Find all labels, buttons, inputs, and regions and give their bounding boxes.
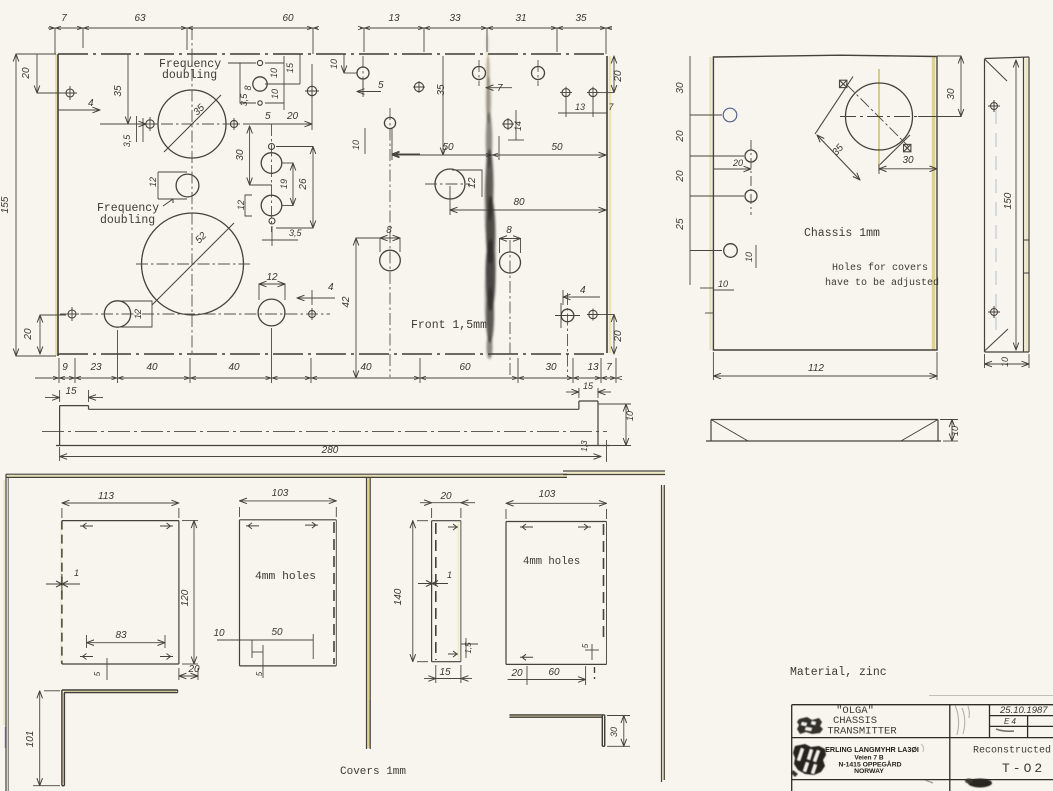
svg-text:Veien 7 B: Veien 7 B	[854, 755, 884, 762]
svg-text:50: 50	[442, 142, 454, 153]
svg-text:50: 50	[271, 627, 283, 638]
svg-text:Covers 1mm: Covers 1mm	[340, 766, 406, 778]
svg-text:60: 60	[548, 667, 560, 678]
svg-text:10: 10	[213, 628, 225, 639]
svg-text:33: 33	[449, 13, 461, 24]
svg-text:19: 19	[279, 179, 289, 189]
svg-text:13: 13	[575, 102, 585, 112]
svg-text:30: 30	[902, 155, 914, 166]
svg-text:8: 8	[506, 225, 512, 236]
svg-text:10: 10	[950, 426, 960, 436]
svg-text:20: 20	[732, 158, 743, 168]
svg-text:ERLING LANGMYHR LA3ØI: ERLING LANGMYHR LA3ØI	[825, 745, 919, 754]
svg-text:113: 113	[98, 491, 114, 502]
svg-text:26: 26	[298, 178, 309, 191]
svg-text:12: 12	[467, 177, 478, 189]
svg-text:40: 40	[228, 362, 240, 373]
svg-text:1,5: 1,5	[464, 642, 473, 654]
svg-text:60: 60	[282, 13, 294, 24]
svg-text:Holes for covers: Holes for covers	[832, 262, 928, 274]
svg-text:doubling: doubling	[162, 69, 217, 82]
svg-text:15: 15	[583, 381, 594, 391]
svg-text:12: 12	[266, 272, 278, 283]
svg-text:13: 13	[388, 13, 400, 24]
svg-text:doubling: doubling	[100, 214, 155, 227]
svg-text:83: 83	[115, 630, 127, 641]
svg-text:1: 1	[447, 570, 452, 580]
svg-text:5: 5	[581, 643, 590, 648]
svg-text:101: 101	[25, 731, 36, 748]
svg-text:30: 30	[545, 362, 557, 373]
svg-text:20: 20	[286, 111, 299, 122]
svg-text:NORWAY: NORWAY	[854, 768, 884, 775]
svg-text:30: 30	[235, 149, 246, 161]
svg-text:15: 15	[439, 667, 451, 678]
svg-text:30: 30	[609, 727, 619, 737]
svg-text:12: 12	[236, 200, 246, 210]
svg-text:Front 1,5mm: Front 1,5mm	[411, 319, 487, 332]
svg-text:30: 30	[946, 88, 957, 100]
svg-text:12: 12	[148, 177, 158, 187]
svg-text:5: 5	[93, 671, 102, 676]
svg-text:4: 4	[88, 98, 94, 109]
svg-text:5: 5	[378, 80, 384, 91]
svg-text:25: 25	[675, 218, 686, 231]
svg-text:20: 20	[675, 170, 686, 183]
svg-text:10: 10	[269, 68, 279, 78]
svg-text:140: 140	[393, 588, 404, 605]
svg-text:120: 120	[180, 589, 191, 606]
svg-text:8: 8	[243, 85, 253, 90]
svg-text:23: 23	[89, 362, 102, 373]
svg-text:15: 15	[65, 386, 77, 397]
svg-text:4mm holes: 4mm holes	[255, 571, 316, 583]
svg-text:8: 8	[386, 225, 392, 236]
svg-text:25.10.1987: 25.10.1987	[999, 705, 1048, 716]
svg-text:3,5: 3,5	[289, 228, 303, 238]
svg-text:4: 4	[328, 282, 334, 293]
svg-text:10: 10	[744, 252, 754, 262]
svg-text:4mm holes: 4mm holes	[523, 556, 580, 568]
svg-text:Reconstructed: Reconstructed	[973, 745, 1051, 757]
svg-text:20: 20	[21, 67, 32, 80]
svg-text:10: 10	[270, 89, 280, 99]
svg-text:103: 103	[272, 488, 289, 499]
svg-text:20: 20	[510, 668, 523, 679]
svg-text:9: 9	[62, 362, 68, 373]
svg-text:10: 10	[351, 140, 361, 150]
svg-text:150: 150	[1003, 192, 1014, 209]
svg-text:7: 7	[497, 83, 503, 94]
svg-text:35: 35	[436, 84, 447, 96]
svg-text:280: 280	[321, 445, 339, 456]
svg-text:40: 40	[146, 362, 158, 373]
svg-text:1: 1	[74, 568, 79, 578]
svg-text:80: 80	[513, 197, 525, 208]
svg-text:20: 20	[613, 70, 624, 83]
svg-text:12: 12	[133, 309, 143, 319]
svg-text:3,5: 3,5	[239, 93, 249, 107]
svg-text:Material, zinc: Material, zinc	[790, 666, 887, 679]
svg-text:3,5: 3,5	[122, 134, 132, 148]
svg-text:7: 7	[606, 362, 612, 373]
svg-text:1,3: 1,3	[580, 440, 589, 452]
svg-text:42: 42	[341, 296, 352, 308]
svg-text:5: 5	[255, 671, 264, 676]
svg-text:E 4: E 4	[1004, 717, 1017, 726]
svg-text:10: 10	[329, 59, 339, 69]
svg-text:TRANSMITTER: TRANSMITTER	[827, 726, 897, 738]
svg-text:60: 60	[459, 362, 471, 373]
svg-text:10: 10	[1000, 357, 1010, 367]
svg-text:103: 103	[539, 489, 556, 500]
svg-text:T-O2: T-O2	[1002, 761, 1045, 776]
svg-text:20: 20	[675, 130, 686, 143]
svg-text:20: 20	[613, 330, 624, 343]
svg-text:63: 63	[134, 13, 146, 24]
svg-text:20: 20	[439, 491, 452, 502]
svg-text:40: 40	[360, 362, 372, 373]
svg-text:155: 155	[0, 196, 11, 213]
svg-text:14: 14	[513, 121, 523, 131]
svg-text:30: 30	[675, 82, 686, 94]
svg-text:13: 13	[587, 362, 599, 373]
svg-text:20: 20	[187, 664, 200, 675]
svg-text:35: 35	[575, 13, 587, 24]
svg-text:Chassis 1mm: Chassis 1mm	[804, 227, 880, 240]
svg-text:112: 112	[808, 363, 824, 374]
svg-text:4: 4	[580, 285, 586, 296]
svg-text:10: 10	[718, 279, 728, 289]
svg-text:7: 7	[61, 13, 67, 24]
svg-text:20: 20	[23, 328, 34, 341]
svg-text:31: 31	[515, 13, 526, 24]
svg-text:5: 5	[265, 111, 271, 122]
svg-text:10: 10	[625, 411, 635, 421]
svg-text:15: 15	[285, 62, 295, 73]
svg-text:35: 35	[113, 85, 124, 97]
svg-text:have to be adjusted: have to be adjusted	[825, 277, 939, 289]
svg-text:50: 50	[551, 142, 563, 153]
